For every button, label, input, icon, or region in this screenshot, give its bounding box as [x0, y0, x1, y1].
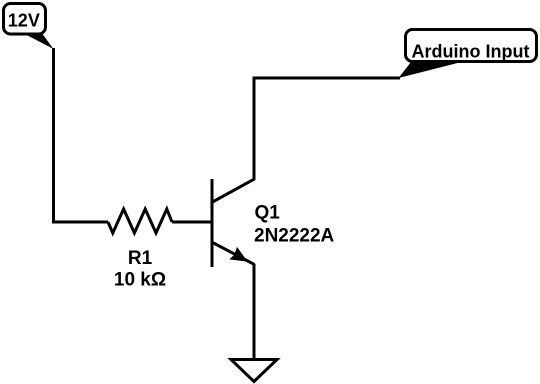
- transistor Q1: [212, 179, 255, 267]
- resistor R1: [108, 209, 172, 233]
- svg-text:Arduino Input: Arduino Input: [412, 42, 530, 62]
- svg-text:R1: R1: [128, 248, 153, 269]
- wire emitter to ground: [253, 264, 256, 358]
- net flag 12V: [4, 4, 54, 50]
- wire 12V to resistor R1: [54, 48, 109, 222]
- wire resistor to base of Q1: [172, 221, 211, 224]
- ground: [231, 360, 277, 382]
- svg-text:10 kΩ: 10 kΩ: [114, 270, 166, 291]
- svg-text:12V: 12V: [8, 11, 40, 31]
- wire collector to Arduino Input: [254, 78, 400, 180]
- svg-text:Q1: Q1: [255, 203, 281, 224]
- svg-text:2N2222A: 2N2222A: [254, 225, 335, 246]
- net flag Arduino Input: [399, 30, 537, 79]
